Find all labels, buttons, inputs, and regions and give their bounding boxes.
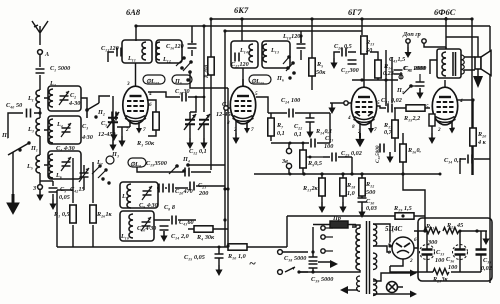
capacitor C39 [309,264,318,268]
resistor R21 zig [424,228,440,234]
capacitor C34 [468,155,472,164]
wire C31 [377,106,406,108]
svg-text:2: 2 [409,258,413,264]
wire L5 to node 3 [39,173,41,184]
wire R14b top [370,52,378,60]
svg-text:С₂₂: С₂₂ [294,123,302,130]
svg-text:С₈ 8: С₈ 8 [164,204,175,211]
svg-text:С₁₆120: С₁₆120 [166,43,184,50]
svg-text:R₁₈: R₁₈ [346,182,355,189]
wire to C40 [8,113,40,138]
switch V [282,271,284,273]
resistor R22 zig [443,228,459,234]
wire C6 [52,181,54,199]
resistor R18 [340,178,346,196]
diode plates V3 [355,112,373,116]
wire V1 cathode [117,121,130,127]
resistor R12 [359,178,365,196]
svg-text:С₄₀ 50: С₄₀ 50 [6,102,22,109]
capacitor C33 [420,245,435,260]
wire vert 219 [224,31,226,247]
wire V2 plate [242,68,244,86]
svg-text:С₁ 5000: С₁ 5000 [50,65,70,72]
svg-text:5: 5 [255,91,258,97]
power transformer secondary fil [373,279,377,296]
capacitor C6 0.05 [49,188,58,192]
wire R20 [472,100,474,175]
capacitor C14 ground [160,226,169,230]
svg-text:500: 500 [366,189,375,196]
wire R19 [287,215,425,231]
wire V4 cath [431,126,433,133]
trimmer C6 [61,157,71,171]
wire top bus 1 [136,25,490,27]
capacitor C40 50 [27,109,31,118]
svg-text:R₂₁: R₂₁ [425,223,434,230]
coil L2 [49,89,53,107]
ac terminal 1 [278,250,283,255]
ground R18 [339,202,346,213]
antenna [32,21,48,45]
wire C34 [460,159,490,174]
svg-text:100: 100 [448,264,457,271]
speaker [475,57,481,69]
pin7 arrow V4 [451,122,453,128]
svg-text:7: 7 [251,127,254,133]
resistor R4 [194,226,213,232]
wire V2 g3 [256,97,268,113]
wire P1 down [12,152,14,196]
svg-text:С₁₅ 0,05: С₁₅ 0,05 [184,254,205,261]
capacitor C42b [394,70,403,74]
wire R23 [418,271,481,273]
trimmer C3 [61,123,71,137]
capacitor C13 120 [117,48,121,57]
pill L15 [249,75,271,84]
coil L1 [36,90,40,108]
variable capacitor C5 [107,112,119,128]
wire C43 [154,219,196,221]
svg-text:П₃: П₃ [111,151,119,158]
resistor R20 [470,128,476,146]
wire sec hv bot [373,246,391,252]
capacitor C15 0.05 [215,254,224,258]
capacitor C18 120 [297,44,306,48]
resistor R26 [90,205,96,223]
svg-text:С₃₀5000: С₃₀5000 [375,145,381,163]
svg-text:7: 7 [143,127,146,133]
svg-text:L₁₂: L₁₂ [162,56,171,63]
wire C15 [218,247,220,265]
svg-text:С₂₃: С₂₃ [325,135,333,142]
trimmer C10 [141,217,151,231]
svg-text:6Г7: 6Г7 [348,7,362,17]
svg-text:L₆: L₆ [55,172,62,179]
wire C24 [268,112,330,114]
coil L13 [263,44,267,62]
svg-text:R₁₂: R₁₂ [365,181,374,188]
capacitor V1 cath [112,112,116,121]
svg-text:R₁₅2,2: R₁₅2,2 [403,115,420,122]
resistor R10 [228,244,247,250]
ground big left [6,194,20,215]
capacitor C17 [235,53,239,62]
arrow chassis [282,252,330,272]
ground R17 [386,152,393,163]
output secondary coil [461,55,464,74]
ground V2 [232,133,239,144]
wire prim top [313,225,360,272]
ground V1 a [110,130,117,141]
svg-text:П₄: П₄ [182,156,190,163]
capacitor C30 [380,144,384,153]
svg-text:С₁₃120: С₁₃120 [101,45,119,52]
wire R9 [289,143,303,174]
svg-text:R₂400: R₂400 [204,65,210,78]
svg-text:С₂₄ 100: С₂₄ 100 [281,97,300,104]
terminal 3v [286,148,291,153]
svg-text:С₄₃1,5: С₄₃1,5 [389,56,405,63]
svg-text:R₇: R₇ [276,122,284,129]
svg-text:С₁₀4·30: С₁₀4·30 [137,225,156,232]
svg-text:L₉: L₉ [121,193,128,200]
resistor R14b [375,60,381,78]
wire vert 204b [203,26,205,97]
svg-text:6: 6 [149,102,152,108]
capacitor C36 [453,245,468,260]
svg-text:2: 2 [125,127,129,133]
wire vert 228 [227,88,229,246]
ground C7b [200,138,207,149]
svg-text:3: 3 [126,81,130,87]
terminal tap2 [321,235,325,239]
wire mid right [329,113,331,143]
svg-text:R₁₃: R₁₃ [365,39,374,46]
arrow fil2 [403,293,410,295]
svg-text:⊙L₁₅: ⊙L₁₅ [251,78,264,85]
svg-text:R₂₃3к: R₂₃3к [432,276,449,283]
wire C36 [459,231,461,272]
ground filter [482,234,489,245]
resistor R16 [400,144,406,162]
shield box L12 [156,40,182,63]
svg-text:С₃₆: С₃₆ [446,256,454,263]
svg-text:П₅: П₅ [174,78,182,85]
fuse Pr [330,221,348,228]
svg-text:6Ф6С: 6Ф6С [434,7,456,17]
svg-text:П₆: П₆ [276,75,284,82]
svg-text:R₁₄: R₁₄ [383,63,392,70]
svg-text:4·30: 4·30 [81,134,93,141]
arrow aux [348,289,358,291]
capacitor C27 300 [348,60,357,64]
capacitor C28 [358,198,367,202]
capacitor C43 60 [172,216,176,225]
wire R26 col [92,162,94,247]
resistor R9 [300,150,306,168]
coil L10 [129,214,133,238]
capacitor C16 120 [188,44,197,48]
svg-text:С₁₂ 0,1: С₁₂ 0,1 [189,148,207,155]
grid cap V2 [224,106,228,110]
svg-text:С₃₀: С₃₀ [366,198,374,205]
ac terminal 2 [278,270,283,275]
capacitor C38 [309,257,318,261]
wire C13 [108,52,114,62]
svg-text:100: 100 [435,257,444,264]
wire ps left [286,216,288,247]
terminal dop2 [422,39,426,43]
svg-text:L₁₈120: L₁₈120 [282,33,300,40]
capacitor C29 [332,153,336,162]
svg-text:8: 8 [227,120,230,126]
switch cluster S1 [182,56,186,60]
wire C18 [300,31,302,60]
resistor R19 [395,213,414,219]
svg-text:L₁: L₁ [27,95,34,102]
arrow fil1 [403,272,410,274]
resistor R23 zig [433,269,449,275]
power transformer primary [356,228,360,252]
resistor R3 [153,112,159,130]
ground V3 [355,133,364,147]
wire V2 cath [235,121,237,133]
shield box L10 [120,211,154,241]
pilot lamp [387,282,398,293]
shield box L11 [122,40,152,63]
svg-text:R₁₁2к: R₁₁2к [302,185,319,192]
svg-text:С₃₈ 5000: С₃₈ 5000 [284,255,306,262]
svg-text:8: 8 [352,124,355,130]
wire R2 down [210,75,212,170]
svg-text:5Ц4С: 5Ц4С [385,225,402,233]
svg-text:⊙L₈: ⊙L₈ [130,161,141,168]
svg-text:С₃: С₃ [82,123,88,130]
svg-text:4: 4 [347,115,351,121]
wire rect bottom [390,259,403,266]
pill P5 [172,75,192,84]
svg-text:R₁ 0,5: R₁ 0,5 [53,211,70,218]
wire V1 g [114,120,122,136]
svg-text:L₅: L₅ [26,163,33,170]
capacitor C24 100 [289,109,293,118]
wire out trans top [430,47,446,74]
svg-text:0,03: 0,03 [366,205,377,212]
svg-text:L₁₁: L₁₁ [127,55,136,62]
ground C5 [109,140,116,151]
shield box L9 [120,182,158,208]
wire P2 up [99,96,110,103]
svg-text:R₁₀ 1,0: R₁₀ 1,0 [227,253,246,260]
wire dop [408,43,446,47]
svg-text:С₁₉3500: С₁₉3500 [146,160,167,167]
wire V4 plate [457,99,472,101]
wire avc bus [352,50,398,106]
wire R3 [148,100,156,136]
svg-text:L₂: L₂ [49,80,56,87]
svg-text:С₄₂ 2000: С₄₂ 2000 [404,65,426,72]
wire sw to tr [299,271,313,273]
svg-text:5: 5 [377,100,380,106]
wire right frame drop [471,19,473,175]
capacitor C22 [306,118,315,122]
ground C6 [49,199,56,210]
svg-text:R₉0,5: R₉0,5 [307,160,322,167]
wire top bus 2 [211,18,472,20]
svg-text:50: 50 [366,47,372,54]
svg-text:Пр: Пр [332,215,341,222]
wire R15 out [425,107,430,109]
wire R11 [321,174,323,202]
svg-text:L₁₀: L₁₀ [120,233,129,240]
svg-text:~: ~ [249,256,256,270]
ground V1 b [118,136,125,147]
rectifier tube 5C4S [392,237,414,259]
resistor R7 [268,118,274,136]
svg-text:С₂₉ 0,02: С₂₉ 0,02 [341,150,362,157]
ground C26 [330,58,337,69]
wire bus drop R2 [210,19,212,57]
shield box L2 [48,86,81,111]
shield box L14 [231,41,258,68]
ground R11 [318,202,325,213]
coil L12 [156,42,160,60]
svg-text:R₄ 30к: R₄ 30к [196,234,215,241]
capacitor C19 3500 [185,168,189,177]
wire R16 [403,133,425,215]
ground C7a [186,138,193,149]
wire bus mid drop [225,30,362,32]
pin7 arrow V1 [138,122,140,128]
wire C1 to L1 [39,75,41,90]
wire V3 cath [359,123,361,133]
shield box L6 [48,151,81,179]
svg-text:0,1: 0,1 [277,130,285,137]
svg-text:L₁₄: L₁₄ [239,47,248,54]
wire long mid [254,173,440,175]
capacitor C21 200 [190,182,194,191]
svg-text:5: 5 [426,104,429,110]
coil L4 [49,119,53,143]
wire C26 [334,52,356,58]
resistor R13 [361,36,367,54]
shield box L13 [262,41,290,68]
ground C28 [358,207,365,218]
capacitor C26 [342,48,346,57]
wire C16 [191,41,193,56]
wire V1 plate [135,63,137,79]
svg-text:1,0: 1,0 [347,190,355,197]
wire left col [40,180,53,182]
variable capacitor C7a [184,114,196,130]
resistor R16s [429,114,435,126]
svg-text:Доп гр: Доп гр [402,31,421,38]
wire L2 box out [81,98,87,110]
svg-text:6: 6 [414,237,417,243]
wire lamp [373,273,403,294]
wire R18 [342,174,344,202]
wire rect out [414,231,418,248]
svg-text:С₁₁30: С₁₁30 [175,88,190,95]
pin7 arrow V3 [370,122,372,128]
svg-text:С₂₁: С₂₁ [198,182,206,189]
wire C42 [83,165,85,190]
wire to speaker [464,57,475,70]
svg-text:R₁₉ 1,5: R₁₉ 1,5 [393,205,412,212]
ground C15 [215,265,222,276]
op tube V2 6K7 [230,79,255,124]
svg-text:0,1: 0,1 [294,131,302,138]
resistor R1 [70,205,76,223]
wire R12 [361,174,363,207]
resistor R5 [309,58,315,76]
capacitor C31 [388,104,392,113]
svg-text:0,02: 0,02 [481,265,492,272]
wire boxes left join [44,98,48,165]
svg-text:R₂₆1к: R₂₆1к [96,211,113,218]
svg-text:П₂: П₂ [97,109,105,116]
svg-text:С₃₅: С₃₅ [483,257,491,264]
switch P2 [85,108,89,112]
terminal tap1 [321,226,325,230]
wire drop R13 [361,19,363,35]
wire L1 junction [39,108,41,118]
op tube V1 6A8 [123,79,148,124]
wire R5 [311,19,313,90]
svg-text:L₄: L₄ [56,121,63,128]
svg-text:⊙L₁₇: ⊙L₁₇ [146,78,160,85]
wire B plus [446,37,478,76]
node 3 [38,185,43,190]
ground node 3 [36,190,43,201]
wire left return [56,190,58,247]
svg-text:R₃ 50к: R₃ 50к [136,140,155,147]
coil L5 [36,155,40,173]
svg-text:R₅: R₅ [316,61,323,68]
svg-text:С₂₆ 0,5: С₂₆ 0,5 [334,43,352,50]
svg-text:С₁₇120: С₁₇120 [231,61,249,68]
wire gang a [190,97,204,138]
wire C35 [480,231,482,272]
pill L8 [128,158,146,167]
wire sec hv top [373,224,390,242]
capacitor C32 gnd [416,82,425,86]
wire bus drop 6A8 [135,26,137,41]
svg-text:А: А [44,51,49,58]
wire V1 grid [148,92,180,97]
svg-text:8: 8 [388,250,391,256]
wire top bus 3 [489,26,491,283]
output transformer box [437,49,461,78]
resistor R11 [319,178,325,196]
resistor R17 [392,120,398,138]
svg-text:100: 100 [324,143,333,150]
ground mid [328,103,335,114]
wire C20 [157,186,225,188]
svg-text:2: 2 [437,127,441,133]
wire R4 [188,228,228,230]
op tube V4 6F6S [432,80,457,125]
pill L7 [106,156,114,164]
svg-text:0,05: 0,05 [59,194,70,201]
capacitor C20 470 [169,184,173,193]
wire C11 to gang [188,97,204,112]
trimmer C42 [79,168,89,182]
svg-text:L₃: L₃ [27,126,34,133]
winding aux [357,276,360,291]
wire C22 [309,113,311,127]
pin7 arrow V2 [246,122,248,128]
